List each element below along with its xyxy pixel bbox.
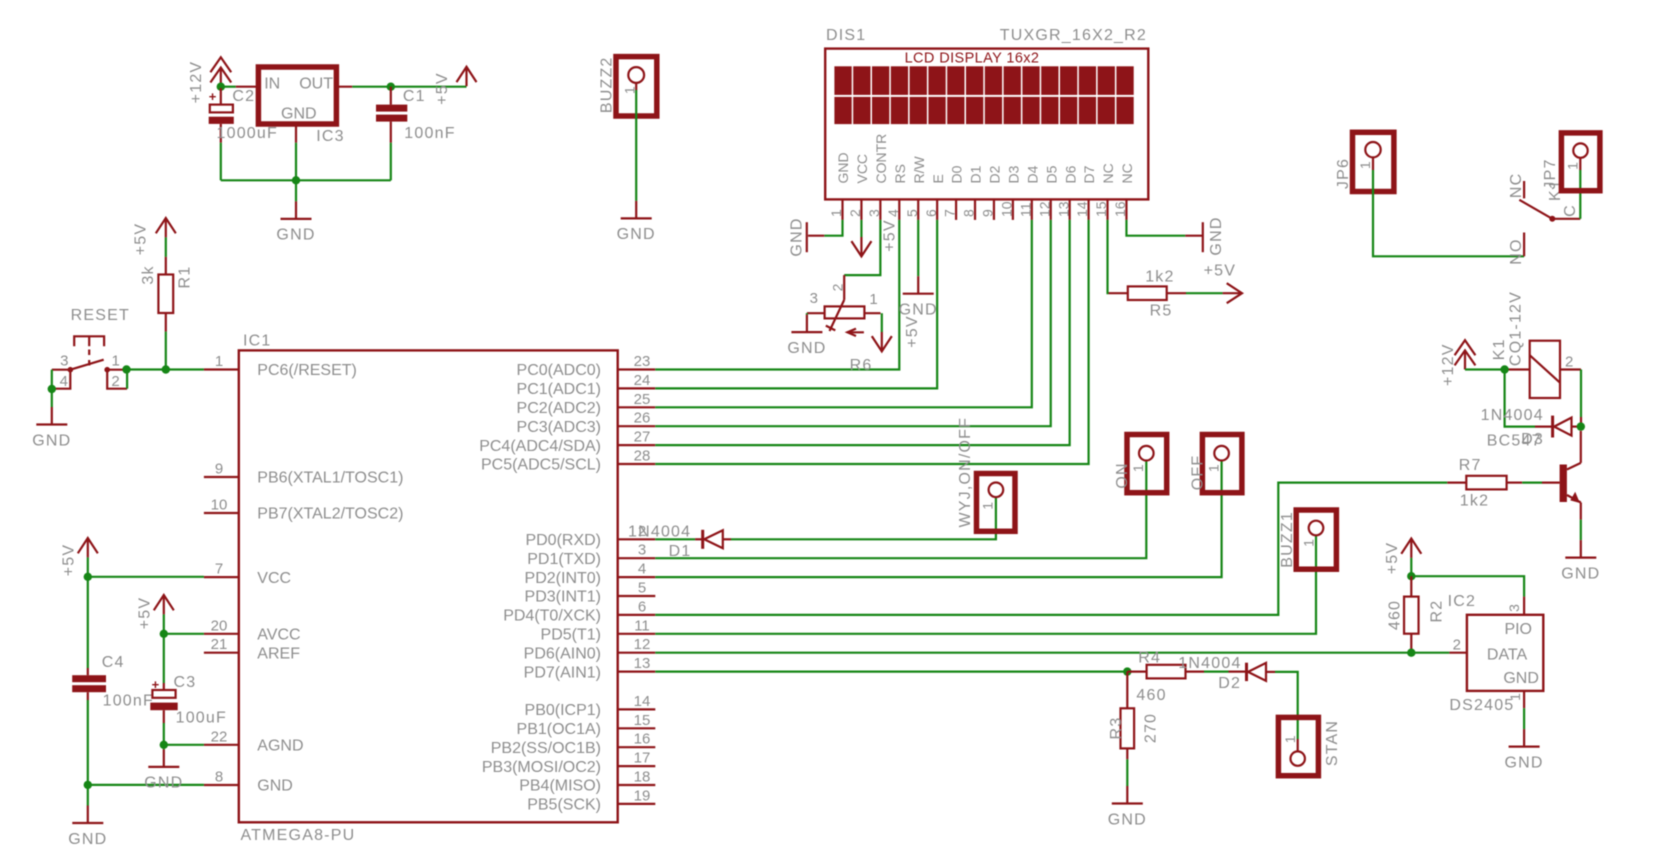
svg-text:17: 17 xyxy=(634,750,651,767)
svg-text:+5V: +5V xyxy=(434,72,451,105)
svg-text:+5V: +5V xyxy=(1384,542,1401,575)
svg-text:D0: D0 xyxy=(949,165,965,183)
svg-text:100nF: 100nF xyxy=(103,693,154,710)
svg-text:GND: GND xyxy=(1108,811,1147,828)
wire LCD pin13 D6 to PC4 xyxy=(655,220,1069,445)
svg-text:AREF: AREF xyxy=(257,645,300,662)
capacitor C1 xyxy=(390,87,392,105)
connector STAN xyxy=(1297,739,1299,751)
svg-text:1: 1 xyxy=(215,353,223,370)
IC1 pin 17 PB3(MOSI/OC2) xyxy=(618,765,656,767)
svg-text:E: E xyxy=(930,174,946,183)
svg-text:PD6(AIN0): PD6(AIN0) xyxy=(524,645,601,662)
wire IC3 GND pin xyxy=(295,124,297,143)
wire BUZZ2 to GND xyxy=(635,83,637,90)
IC1 pin 7 VCC xyxy=(204,576,239,578)
node junction +12V/coil/D3 xyxy=(1500,365,1508,373)
relay coil K1 CQ1-12V xyxy=(1530,341,1560,398)
svg-text:PC5(ADC5/SCL): PC5(ADC5/SCL) xyxy=(481,457,601,474)
IC1 pin 20 AVCC xyxy=(204,633,239,635)
svg-text:D4: D4 xyxy=(1024,165,1040,183)
LCD pin 6 E xyxy=(936,199,938,220)
node junction GND net xyxy=(292,176,300,184)
IC1 pin 23 PC0(ADC0) xyxy=(618,368,656,370)
svg-text:3: 3 xyxy=(866,209,882,217)
svg-text:CONTR: CONTR xyxy=(873,134,889,184)
svg-text:D5: D5 xyxy=(1043,165,1059,183)
svg-text:9: 9 xyxy=(980,209,996,217)
diode D2 1N4004 xyxy=(1229,670,1247,672)
svg-text:4: 4 xyxy=(885,209,901,217)
svg-text:+12V: +12V xyxy=(188,61,205,104)
svg-text:14: 14 xyxy=(1074,201,1090,217)
capacitor C3 xyxy=(163,634,165,683)
IC1 pin 8 GND xyxy=(204,784,239,786)
relay K1 contact NC xyxy=(1523,181,1525,198)
IC1 pin 10 PB7(XTAL2/TOSC2) xyxy=(204,512,239,514)
wire LCD pin11 D4 to PC2 xyxy=(655,220,1032,407)
svg-text:4: 4 xyxy=(638,561,646,578)
resistor R4 460 xyxy=(1127,670,1146,672)
svg-text:R/W: R/W xyxy=(911,156,927,184)
svg-text:13: 13 xyxy=(634,655,651,672)
LCD pin 7 D0 xyxy=(955,199,957,220)
svg-text:12: 12 xyxy=(634,636,651,653)
svg-text:C: C xyxy=(1562,204,1579,217)
svg-text:24: 24 xyxy=(634,372,651,389)
svg-text:VCC: VCC xyxy=(257,570,291,587)
svg-text:22: 22 xyxy=(211,728,228,745)
node junction switch pin4 xyxy=(48,385,56,393)
svg-text:AGND: AGND xyxy=(257,738,303,755)
svg-text:1: 1 xyxy=(1282,735,1298,743)
wire JP6 to relay NO xyxy=(1372,158,1374,170)
svg-text:ON: ON xyxy=(1114,462,1131,488)
resistor R7 1k2 xyxy=(1447,482,1466,484)
svg-text:3: 3 xyxy=(60,353,68,370)
ground GND under BUZZ2 xyxy=(635,201,637,219)
svg-text:16: 16 xyxy=(634,731,651,748)
svg-text:7: 7 xyxy=(942,209,958,217)
svg-text:RESET: RESET xyxy=(71,307,130,324)
IC1 pin 5 PD3(INT1) xyxy=(618,595,656,597)
wire D1 to WYJ.ON/OFF xyxy=(731,498,996,540)
svg-text:460: 460 xyxy=(1136,687,1166,704)
wire GND to IC1 pin8 xyxy=(88,784,204,786)
IC1 pin 11 PD5(T1) xyxy=(618,633,656,635)
wire LCD pin4 RS to PC0 xyxy=(655,220,899,370)
svg-text:+5V: +5V xyxy=(61,544,78,577)
LCD pin 9 D2 xyxy=(993,199,995,220)
svg-text:ATMEGA8-PU: ATMEGA8-PU xyxy=(241,827,356,844)
svg-text:DIS1: DIS1 xyxy=(826,27,866,44)
IC1 pin 19 PB5(SCK) xyxy=(618,803,656,805)
IC1 pin 13 PD7(AIN1) xyxy=(618,670,656,672)
svg-text:C2: C2 xyxy=(232,88,255,105)
svg-text:IC3: IC3 xyxy=(316,128,345,145)
svg-text:25: 25 xyxy=(634,391,651,408)
svg-text:1k2: 1k2 xyxy=(1460,493,1489,510)
wire PD5 to BUZZ1 xyxy=(655,536,1316,634)
svg-text:1000uF: 1000uF xyxy=(217,125,278,142)
wire PD6 to IC2 DATA xyxy=(655,652,1449,654)
power net +5V arrow above R2 xyxy=(1401,539,1421,554)
IC1 pin 18 PB4(MISO) xyxy=(618,784,656,786)
IC1 pin 12 PD6(AIN0) xyxy=(618,652,656,654)
wire C3 to AGND xyxy=(163,723,165,745)
svg-text:2: 2 xyxy=(1453,637,1461,654)
svg-text:270: 270 xyxy=(1143,713,1160,743)
svg-text:PB4(MISO): PB4(MISO) xyxy=(519,778,601,795)
svg-text:13: 13 xyxy=(1055,201,1071,217)
IC1 pin 9 PB6(XTAL1/TOSC1) xyxy=(204,476,239,478)
svg-text:PD0(RXD): PD0(RXD) xyxy=(525,532,601,549)
svg-text:100uF: 100uF xyxy=(176,710,227,727)
svg-text:19: 19 xyxy=(634,787,651,804)
ground GND left of LCD xyxy=(806,222,808,252)
svg-text:PD3(INT1): PD3(INT1) xyxy=(525,589,601,606)
svg-text:STAN: STAN xyxy=(1324,720,1341,766)
svg-text:GND: GND xyxy=(835,152,851,183)
svg-text:1: 1 xyxy=(1507,693,1523,701)
wire LCD pin14 D7 to PC5 xyxy=(655,220,1088,464)
svg-text:PC3(ADC3): PC3(ADC3) xyxy=(517,419,601,436)
capacitor C4 xyxy=(87,577,89,668)
connector OFF xyxy=(1202,435,1242,493)
svg-text:PD5(T1): PD5(T1) xyxy=(541,627,601,644)
svg-text:C1: C1 xyxy=(403,88,426,105)
LCD pin 14 D7 xyxy=(1087,199,1089,220)
svg-text:PC2(ADC2): PC2(ADC2) xyxy=(517,400,601,417)
svg-text:D6: D6 xyxy=(1062,165,1078,183)
node junction D3/coil/collector xyxy=(1577,422,1585,430)
connector JP6 xyxy=(1353,132,1394,191)
IC1 pin 25 PC2(ADC2) xyxy=(618,406,656,408)
IC1 pin 22 AGND xyxy=(204,744,239,746)
node junction +5V/R2/PIO xyxy=(1407,572,1415,580)
LCD pin 11 D4 xyxy=(1031,199,1033,220)
svg-text:1: 1 xyxy=(1205,464,1221,472)
svg-text:14: 14 xyxy=(634,693,651,710)
svg-text:PIO: PIO xyxy=(1504,621,1532,638)
svg-text:3: 3 xyxy=(810,290,818,307)
svg-text:NC: NC xyxy=(1508,173,1525,199)
IC2 pin 2 DATA xyxy=(1449,652,1467,654)
IC1 pin 28 PC5(ADC5/SCL) xyxy=(618,463,656,465)
node junction +5V/VCC/C4 xyxy=(84,573,92,581)
svg-text:NO: NO xyxy=(1508,238,1525,264)
svg-text:11: 11 xyxy=(1017,202,1033,217)
LCD pin 8 D1 xyxy=(974,199,976,220)
svg-text:PB3(MOSI/OC2): PB3(MOSI/OC2) xyxy=(482,759,601,776)
svg-text:+5V: +5V xyxy=(882,219,899,252)
ground GND under RESET xyxy=(51,407,53,425)
svg-text:1: 1 xyxy=(1357,161,1373,169)
IC1 pin 2 PD0(RXD) xyxy=(618,538,656,540)
svg-text:1: 1 xyxy=(112,353,120,370)
power net +12V arrow at relay xyxy=(1455,340,1476,355)
power net +5V arrow at AVCC xyxy=(154,595,174,610)
ground GND under Q1 xyxy=(1580,540,1582,558)
power net +5V arrow (top) xyxy=(457,67,477,82)
svg-text:+5V: +5V xyxy=(1204,263,1237,280)
svg-text:6: 6 xyxy=(638,598,646,615)
svg-text:PB6(XTAL1/TOSC1): PB6(XTAL1/TOSC1) xyxy=(257,470,403,487)
IC1 pin 1 PC6(/RESET) xyxy=(204,368,239,370)
svg-text:PD4(T0/XCK): PD4(T0/XCK) xyxy=(503,608,601,625)
LCD pin 2 VCC xyxy=(860,199,862,220)
svg-text:+12V: +12V xyxy=(1440,343,1457,386)
diode D3 1N4004 xyxy=(1535,426,1552,428)
svg-text:10: 10 xyxy=(211,497,228,514)
wire C2 to GND net xyxy=(220,143,222,181)
svg-text:JP6: JP6 xyxy=(1335,158,1352,189)
svg-text:BUZZ2: BUZZ2 xyxy=(599,56,616,113)
svg-text:JP7: JP7 xyxy=(1542,158,1559,189)
svg-text:+5V: +5V xyxy=(137,597,154,630)
IC1 pin 16 PB2(SS/OC1B) xyxy=(618,746,656,748)
svg-text:GND: GND xyxy=(32,432,71,449)
wire AGND to IC1 pin22 xyxy=(164,744,204,746)
svg-text:PD2(INT0): PD2(INT0) xyxy=(525,570,601,587)
svg-text:R5: R5 xyxy=(1150,303,1173,320)
LCD pin 1 GND xyxy=(841,199,843,220)
svg-text:3: 3 xyxy=(638,542,646,559)
power net +5V arrow right of R5 xyxy=(1227,283,1242,303)
svg-text:26: 26 xyxy=(634,410,651,427)
power net +12V supply arrow xyxy=(210,57,231,72)
svg-text:IC1: IC1 xyxy=(243,333,272,350)
svg-text:GND: GND xyxy=(787,340,826,357)
svg-text:1: 1 xyxy=(1565,162,1581,170)
svg-text:PC4(ADC4/SDA): PC4(ADC4/SDA) xyxy=(479,438,601,455)
svg-text:IN: IN xyxy=(264,76,280,93)
node junction +12V/C2/IN xyxy=(217,83,225,91)
LCD pin 13 D6 xyxy=(1069,199,1071,220)
LCD character blocks row 2 xyxy=(834,97,1133,124)
wire R5 to +5V xyxy=(1186,292,1223,294)
LCD pin 12 D5 xyxy=(1050,199,1052,220)
svg-text:20: 20 xyxy=(211,617,228,634)
svg-text:PB2(SS/OC1B): PB2(SS/OC1B) xyxy=(491,740,601,757)
svg-text:GND: GND xyxy=(1208,216,1225,255)
svg-text:GND: GND xyxy=(1561,565,1600,582)
svg-text:4: 4 xyxy=(60,373,68,390)
IC2 pin 3 PIO xyxy=(1523,597,1525,615)
svg-text:OUT: OUT xyxy=(299,76,333,93)
ground GND under R6 pin3 xyxy=(806,315,808,333)
svg-text:AVCC: AVCC xyxy=(257,627,300,644)
svg-text:2: 2 xyxy=(847,209,863,217)
svg-text:DATA: DATA xyxy=(1487,647,1528,664)
connector BUZZ1 xyxy=(1296,510,1336,569)
svg-text:1: 1 xyxy=(828,209,844,217)
IC1 pin 21 AREF xyxy=(204,652,239,654)
wire common to JP7 xyxy=(1579,170,1581,219)
wire PD2 to OFF xyxy=(655,461,1221,577)
svg-text:11: 11 xyxy=(634,617,650,634)
svg-text:+5V: +5V xyxy=(904,315,921,348)
ground GND under IC3 xyxy=(295,180,297,201)
IC1 pin 4 PD2(INT0) xyxy=(618,576,656,578)
wire D3 branch xyxy=(1505,370,1535,427)
svg-text:D1: D1 xyxy=(968,165,984,183)
IC1 pin 27 PC4(ADC4/SDA) xyxy=(618,444,656,446)
svg-text:D3: D3 xyxy=(1005,165,1021,183)
svg-text:1N4004: 1N4004 xyxy=(628,524,691,541)
IC1 pin 6 PD4(T0/XCK) xyxy=(618,614,656,616)
svg-text:GND: GND xyxy=(276,227,315,244)
svg-text:5: 5 xyxy=(904,209,920,217)
trimmer R6 xyxy=(843,275,845,300)
svg-text:VCC: VCC xyxy=(854,154,870,184)
wire R6 pin3 to ground xyxy=(807,312,825,314)
svg-text:IC2: IC2 xyxy=(1448,593,1477,610)
wire LCD pin1 to side ground xyxy=(824,220,842,236)
wire RESET pin3/4 to ground xyxy=(51,370,53,407)
svg-text:C3: C3 xyxy=(174,674,197,691)
node junction OUT/C1 xyxy=(387,83,395,91)
svg-text:3: 3 xyxy=(1506,604,1522,612)
svg-text:15: 15 xyxy=(1093,201,1109,217)
svg-text:NC: NC xyxy=(1100,163,1116,183)
wire PD1 to ON xyxy=(655,461,1146,558)
svg-text:DS2405: DS2405 xyxy=(1449,697,1514,714)
resistor R3 270 xyxy=(1126,672,1128,709)
svg-text:WYJ,ON/OFF: WYJ,ON/OFF xyxy=(957,417,974,528)
ground GND under LCD pin5 xyxy=(917,276,919,294)
wire PD4 to R7 xyxy=(655,483,1447,615)
svg-text:PB1(OC1A): PB1(OC1A) xyxy=(517,721,601,738)
svg-text:C4: C4 xyxy=(102,654,125,671)
svg-text:R4: R4 xyxy=(1138,650,1161,667)
LCD pin 3 CONTR xyxy=(879,199,881,220)
svg-text:9: 9 xyxy=(215,461,223,478)
ground GND under C3 xyxy=(163,745,165,750)
svg-text:GND: GND xyxy=(281,106,317,123)
wire IC3 OUT to +5V xyxy=(336,86,352,88)
svg-text:PC6(/RESET): PC6(/RESET) xyxy=(257,362,357,379)
IC1 pin 14 PB0(ICP1) xyxy=(618,708,656,710)
wire +5V to IC1 VCC xyxy=(88,576,204,578)
svg-text:+5V: +5V xyxy=(132,223,149,256)
LCD pin 5 R/W xyxy=(917,199,919,220)
wire LCD pin15 to R5 xyxy=(1106,220,1109,293)
wire LCD pin12 D5 to PC3 xyxy=(655,220,1050,426)
LCD pin 16 NC xyxy=(1125,199,1127,220)
svg-text:R7: R7 xyxy=(1459,457,1482,474)
svg-text:LCD DISPLAY 16x2: LCD DISPLAY 16x2 xyxy=(905,51,1040,67)
svg-text:460: 460 xyxy=(1386,600,1403,630)
svg-text:BC547: BC547 xyxy=(1487,433,1542,450)
wire GND net under IC3 xyxy=(221,179,391,181)
svg-text:2: 2 xyxy=(111,373,119,390)
LCD pin 4 RS xyxy=(898,199,900,220)
svg-text:8: 8 xyxy=(961,209,977,217)
svg-text:D7: D7 xyxy=(1081,165,1097,183)
resistor R1 3k xyxy=(165,237,167,257)
svg-text:100nF: 100nF xyxy=(404,125,455,142)
svg-text:6: 6 xyxy=(923,209,939,217)
wire emitter to ground xyxy=(1580,503,1582,520)
svg-text:18: 18 xyxy=(634,769,651,786)
wire LCD pin3 CONTR to R6 xyxy=(844,220,880,275)
svg-text:K1: K1 xyxy=(1491,338,1508,360)
IC1 pin 15 PB1(OC1A) xyxy=(618,727,656,729)
svg-text:+: + xyxy=(209,89,217,104)
svg-text:D2: D2 xyxy=(987,165,1003,183)
svg-text:R3: R3 xyxy=(1108,717,1125,740)
wire R6 pin1 to +5V xyxy=(864,312,880,314)
svg-text:GND: GND xyxy=(617,226,656,243)
svg-text:GND: GND xyxy=(257,778,293,795)
svg-text:GND: GND xyxy=(1503,670,1539,687)
svg-text:D2: D2 xyxy=(1218,675,1241,692)
wire C1 to GND net xyxy=(390,143,392,181)
svg-text:GND: GND xyxy=(144,775,183,792)
svg-text:R2: R2 xyxy=(1429,600,1446,623)
svg-text:PC1(ADC1): PC1(ADC1) xyxy=(517,381,601,398)
LCD character blocks row 1 xyxy=(834,66,1133,95)
svg-text:3k: 3k xyxy=(140,265,157,284)
wire +5V to IC2 PIO xyxy=(1411,576,1524,596)
svg-text:OFF: OFF xyxy=(1190,455,1207,491)
node junction GND/C4 xyxy=(84,781,92,789)
IC1 pin 26 PC3(ADC3) xyxy=(618,425,656,427)
svg-text:R6: R6 xyxy=(850,357,873,374)
svg-text:28: 28 xyxy=(634,448,651,465)
svg-text:21: 21 xyxy=(211,636,228,653)
microcontroller IC1 ATMEGA8-PU body xyxy=(239,350,618,822)
svg-text:15: 15 xyxy=(634,712,651,729)
connector BUZZ2 xyxy=(616,57,657,116)
resistor R2 460 xyxy=(1410,576,1412,596)
svg-text:1: 1 xyxy=(1130,464,1146,472)
connector JP7 xyxy=(1561,133,1600,191)
svg-text:GND: GND xyxy=(789,217,806,256)
svg-text:GND: GND xyxy=(1505,754,1544,771)
LCD pin 10 D3 xyxy=(1012,199,1014,220)
node junction R2/DATA xyxy=(1407,649,1415,657)
svg-text:TUXGR_16X2_R2: TUXGR_16X2_R2 xyxy=(1000,27,1147,44)
svg-text:GND: GND xyxy=(68,831,107,848)
relay K1 contact arm and common xyxy=(1519,200,1552,219)
wire LCD pin16 to side ground xyxy=(1126,220,1185,236)
svg-text:10: 10 xyxy=(998,201,1014,217)
ground GND under C4 xyxy=(87,785,89,806)
svg-text:CQ1-12V: CQ1-12V xyxy=(1507,291,1524,366)
svg-text:RS: RS xyxy=(892,164,908,183)
svg-text:1: 1 xyxy=(621,86,637,94)
IC1 pin 24 PC1(ADC1) xyxy=(618,387,656,389)
LCD pin 15 NC xyxy=(1106,199,1108,220)
power net +5V arrow below LCD pin2 xyxy=(860,220,862,237)
wire coil pin2 down to collector xyxy=(1560,368,1581,370)
IC2 DS2405 body xyxy=(1467,615,1543,691)
svg-text:1: 1 xyxy=(869,291,877,308)
svg-text:PD1(TXD): PD1(TXD) xyxy=(527,551,601,568)
wire LCD pin5 R/W to ground xyxy=(917,220,919,276)
wire reset net to IC1 pin1 xyxy=(125,368,203,370)
svg-text:BUZZ1: BUZZ1 xyxy=(1279,511,1296,568)
transistor Q1 BC547 xyxy=(1542,482,1560,484)
node junction PD7/R4/R3 xyxy=(655,670,1127,672)
ground GND under R3 xyxy=(1126,786,1128,804)
svg-text:1: 1 xyxy=(980,502,996,510)
wire R1 to reset net xyxy=(165,332,167,370)
LCD display DIS1 TUXGR_16X2_R2 xyxy=(825,49,1148,200)
svg-text:1N4004: 1N4004 xyxy=(1178,655,1241,672)
